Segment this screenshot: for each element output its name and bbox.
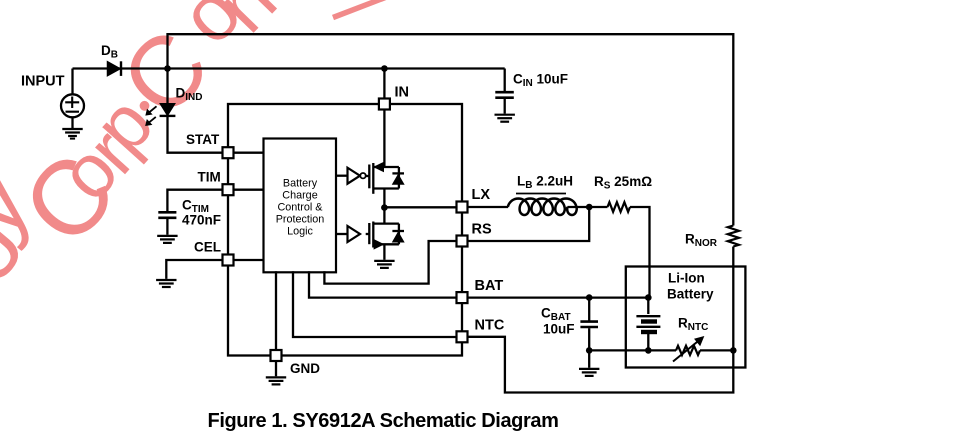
junction battery - xyxy=(645,347,652,354)
ground GND pin xyxy=(266,377,286,384)
wire IN stub xyxy=(383,69,385,99)
wire BAT internal xyxy=(309,271,456,297)
wire NTC pin loop xyxy=(469,337,734,393)
buffer inverter upper xyxy=(348,168,366,184)
inductor L_B xyxy=(508,199,577,216)
wire main input rail xyxy=(73,67,505,69)
ground input source xyxy=(62,129,82,136)
wire NMOS drain to mid node xyxy=(383,208,385,224)
ground NMOS xyxy=(374,261,394,268)
svg-text:CEL: CEL xyxy=(194,240,221,255)
svg-text:LX: LX xyxy=(472,187,491,203)
svg-text:STAT: STAT xyxy=(186,132,220,147)
LED D_IND xyxy=(146,69,176,126)
junction C_BAT bottom xyxy=(586,347,593,354)
svg-text:BAT: BAT xyxy=(475,278,504,294)
capacitor C_TIM xyxy=(158,212,176,218)
wire R_NOR to NTC node xyxy=(732,247,734,351)
svg-text:CIN 10uF: CIN 10uF xyxy=(513,72,568,90)
wire PMOS drain to mid node xyxy=(383,189,385,208)
svg-text:Li-Ion: Li-Ion xyxy=(668,271,705,286)
label Li-Ion Battery xyxy=(667,271,714,302)
pin CEL xyxy=(223,255,234,266)
label L_B 2.2uH xyxy=(516,174,573,194)
ground C_IN xyxy=(495,115,515,122)
svg-text:Protection: Protection xyxy=(276,214,325,226)
wire BAT to battery xyxy=(469,296,649,298)
wire mid node to LX xyxy=(384,206,455,208)
svg-text:10uF: 10uF xyxy=(543,322,575,337)
wire driver upper xyxy=(336,175,348,177)
junction IN node xyxy=(381,65,388,72)
IC U1 SY6912A body xyxy=(228,104,462,356)
svg-text:RS: RS xyxy=(472,222,492,238)
pin BAT xyxy=(457,292,468,303)
wire GND internal stub xyxy=(275,271,277,349)
wire TIM to C_TIM xyxy=(167,190,221,212)
buffer lower xyxy=(348,226,361,242)
svg-text:RS 25mΩ: RS 25mΩ xyxy=(594,174,652,192)
capacitor C_IN xyxy=(495,92,514,98)
wire thermistor to NTC node xyxy=(700,349,733,351)
junction battery + xyxy=(645,294,652,301)
junction NTC node xyxy=(730,347,737,354)
pin TIM xyxy=(223,184,234,195)
battery cell stack xyxy=(636,298,660,351)
junction input node xyxy=(164,65,171,72)
label C_BAT 10uF xyxy=(541,306,575,337)
wire STAT internal xyxy=(235,152,264,154)
wire battery bottom rail xyxy=(589,349,676,351)
wire LX to inductor xyxy=(469,206,509,208)
wire driver lower xyxy=(336,233,348,235)
wire RS pin to sense node xyxy=(469,207,590,241)
junction half-bridge mid xyxy=(381,204,388,211)
pin NTC xyxy=(457,331,468,342)
svg-text:Control &: Control & xyxy=(277,202,323,214)
svg-text:Logic: Logic xyxy=(287,226,313,238)
ground C_BAT xyxy=(579,369,599,376)
wire IN to PMOS source xyxy=(383,110,385,167)
svg-text:GND: GND xyxy=(290,361,320,376)
thermistor R_NTC xyxy=(673,337,704,362)
pin STAT xyxy=(223,147,234,158)
svg-text:Battery: Battery xyxy=(283,177,318,189)
wire input source stub xyxy=(71,69,73,95)
wire LED to STAT xyxy=(168,116,222,153)
resistor R_NOR xyxy=(728,226,739,247)
svg-text:470nF: 470nF xyxy=(182,213,221,228)
pin LX xyxy=(457,202,468,213)
wire C_IN stub xyxy=(504,69,506,92)
svg-text:Figure 1. SY6912A Schematic Di: Figure 1. SY6912A Schematic Diagram xyxy=(208,410,559,432)
svg-text:Charge: Charge xyxy=(282,189,317,201)
junction C_BAT top xyxy=(586,294,593,301)
wire NTC internal xyxy=(293,271,456,337)
svg-text:Battery: Battery xyxy=(667,287,714,302)
capacitor C_BAT xyxy=(580,298,598,351)
wire TIM internal xyxy=(235,189,264,191)
wire top loop to right rail xyxy=(168,34,734,225)
wire NMOS source to ground xyxy=(383,244,385,259)
wire R_S to BAT node xyxy=(630,207,650,298)
wire CEL internal xyxy=(235,259,264,261)
inner logic block xyxy=(264,139,337,273)
pin GND xyxy=(271,350,282,361)
resistor R_S xyxy=(608,202,631,212)
wire C_BAT to ground xyxy=(588,350,590,367)
pin RS xyxy=(457,236,468,247)
wire CEL to ground xyxy=(166,260,221,279)
wire inductor to R_S xyxy=(567,206,607,208)
svg-text:INPUT: INPUT xyxy=(21,74,65,90)
ground CEL xyxy=(156,280,176,287)
transistor PMOS upper xyxy=(366,163,404,194)
svg-text:NTC: NTC xyxy=(475,318,505,334)
svg-text:IN: IN xyxy=(395,85,410,101)
watermark text xyxy=(0,0,397,290)
ground C_TIM xyxy=(157,236,177,243)
wire C_TIM to ground xyxy=(166,219,168,235)
wire source to ground xyxy=(71,117,73,128)
svg-text:TIM: TIM xyxy=(198,170,221,185)
wire GND pin to ground xyxy=(275,362,277,376)
wire RS internal xyxy=(324,241,456,284)
wire C_IN to ground xyxy=(504,99,506,114)
pin IN xyxy=(379,99,390,110)
battery box xyxy=(626,267,746,368)
junction LX sense node xyxy=(586,204,593,211)
transistor NMOS lower xyxy=(366,222,404,249)
diode D_B xyxy=(108,61,122,76)
voltage source INPUT xyxy=(61,94,84,117)
